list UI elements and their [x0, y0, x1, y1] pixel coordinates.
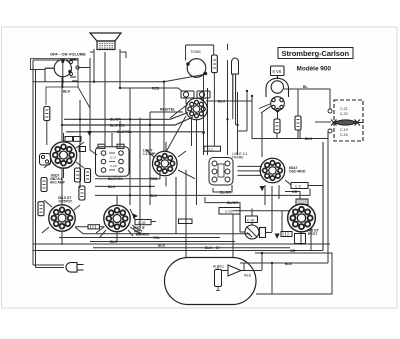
- capacitor C-27 box: [179, 219, 193, 224]
- wire vertical v130: [129, 88, 131, 205]
- oscillator coils L5 L6: [181, 91, 210, 98]
- svg-text:BLK: BLK: [218, 100, 226, 104]
- wire vertical v90: [90, 58, 97, 155]
- svg-text:YEL: YEL: [153, 236, 161, 240]
- svg-text:RED: RED: [244, 274, 252, 278]
- IF transformer T2: [96, 147, 130, 177]
- output transformer T4 leads: [94, 50, 120, 61]
- svg-text:C-22: C-22: [340, 112, 348, 116]
- svg-text:BLK/YEL: BLK/YEL: [108, 177, 124, 181]
- svg-text:RED: RED: [152, 87, 160, 91]
- capacitor C-31 box below rectifier: [295, 234, 306, 244]
- wire bottom run BLK2 long: [33, 243, 330, 245]
- capacitor C16b top box B: [117, 144, 124, 148]
- tube V8 6X5 rectifier socket: [288, 204, 316, 232]
- power plug P1: [66, 263, 84, 273]
- svg-text:1.2 AMP: 1.2 AMP: [143, 152, 156, 156]
- wire labels group: [108, 85, 313, 266]
- svg-text:AVC AMP: AVC AMP: [50, 181, 66, 185]
- svg-text:BLK ¬ B+: BLK ¬ B+: [205, 246, 221, 250]
- wire bottom BLK3 run: [93, 247, 290, 249]
- wire heater run 1 BL/OR: [64, 113, 188, 120]
- tuning gang lens: [334, 120, 357, 125]
- resistor R12: [44, 107, 50, 121]
- wire output B web: [96, 196, 156, 242]
- wire 6X5 left feed: [233, 211, 289, 232]
- transformer 1:1 box: [204, 146, 221, 151]
- capacitor C-29 box: [219, 208, 240, 215]
- resistor R10: [41, 178, 47, 192]
- wire OR label run: [285, 192, 300, 200]
- svg-text:BL/YEL: BL/YEL: [213, 265, 225, 269]
- svg-text:BLK: BLK: [110, 240, 118, 244]
- svg-text:BL/OR: BL/OR: [227, 201, 238, 205]
- wire vertical v196: [196, 119, 198, 155]
- svg-text:Modèle 900: Modèle 900: [297, 66, 332, 73]
- svg-text:C-29: C-29: [225, 210, 233, 214]
- wire vertical tone left: [203, 73, 205, 156]
- label 6SQ7: [50, 174, 66, 185]
- wire v176: [176, 155, 197, 245]
- svg-text:BLK: BLK: [305, 137, 313, 141]
- resistor R4: [274, 119, 280, 133]
- wire 6SA7 left stubs: [238, 166, 263, 175]
- wire converter left web: [166, 98, 202, 152]
- resistor R13: [38, 202, 44, 216]
- tube V5 converter socket: [186, 98, 208, 120]
- wire RED speaker run: [120, 49, 182, 91]
- wire vertical v262: [261, 113, 263, 157]
- svg-text:RECT: RECT: [308, 232, 318, 236]
- tube V3 6SK7 socket: [153, 151, 178, 176]
- resistor R9: [85, 169, 91, 183]
- wire vertical v62: [61, 77, 63, 204]
- label 6V6 GT OUTPUT: [58, 196, 72, 204]
- svg-text:BLK: BLK: [63, 90, 71, 94]
- wire vertical v237: [237, 92, 239, 155]
- svg-text:OSC-MOD: OSC-MOD: [289, 170, 306, 174]
- resistor R8: [75, 168, 81, 182]
- wire right OR run: [255, 253, 332, 294]
- wire left border outer: [33, 60, 36, 268]
- svg-text:BL/RED: BL/RED: [136, 232, 150, 236]
- tone control R2: [186, 45, 214, 77]
- wire avc run BLK: [95, 189, 310, 196]
- svg-text:C-19: C-19: [340, 128, 348, 132]
- wire bottom run BL/RED: [83, 233, 250, 235]
- svg-text:C-30: C-30: [247, 219, 254, 223]
- resistor R5: [295, 116, 301, 130]
- wire stadium right drops: [256, 253, 272, 294]
- capacitor C16c side box: [79, 147, 86, 152]
- wire 6SA7 drops: [265, 185, 279, 232]
- wire stadium triangle feed: [244, 264, 262, 271]
- wire BLK tuner feed: [252, 96, 328, 139]
- wire bottom B+ run: [33, 142, 323, 251]
- label L16 light: [143, 149, 156, 156]
- wire volume box top: [33, 60, 78, 64]
- wire vertical tone right: [207, 88, 209, 155]
- capacitor C16 top box A: [98, 144, 105, 148]
- svg-text:C-20: C-20: [340, 133, 348, 137]
- wire BLK/YEL mid: [95, 172, 160, 179]
- resistor R11: [79, 186, 85, 200]
- wire RED/YEL run: [150, 111, 183, 113]
- ammeter arrow A1: [222, 263, 244, 277]
- wire long B+ horizontal: [33, 81, 164, 83]
- battery stadium B1: [165, 258, 257, 305]
- svg-text:Stromberg-Carlson: Stromberg-Carlson: [282, 49, 350, 58]
- svg-text:BL/OR: BL/OR: [220, 190, 231, 194]
- svg-text:OFF - ON VOLUME: OFF - ON VOLUME: [50, 52, 86, 57]
- wire output A web: [42, 199, 105, 245]
- volume control R1 OFF-ON VOLUME: [31, 59, 91, 109]
- wire volume pot bottom: [31, 68, 91, 82]
- vibrator G1 circle-X: [245, 225, 266, 239]
- wire speaker left lead: [93, 49, 95, 82]
- label 6SK7 IF: [133, 226, 145, 233]
- dial lamp I-1: [232, 58, 239, 102]
- speaker SP1: [90, 33, 121, 50]
- wire vertical v120b: [119, 121, 121, 147]
- wire BL 6V6 to tuner: [284, 89, 330, 109]
- fuse box above rectifier: [296, 199, 308, 205]
- capacitor C21 dashed tuner box: [315, 100, 363, 141]
- wire bottom run BLK1: [90, 241, 235, 243]
- svg-text:RED/YEL: RED/YEL: [160, 108, 176, 112]
- wire vertical v150: [149, 112, 151, 205]
- svg-text:BLK/YEL: BLK/YEL: [110, 123, 126, 127]
- tube V4 6SA7 socket: [260, 158, 285, 183]
- wire heater run 3 BLK/YEL: [66, 131, 205, 133]
- capacitor C-30 box: [246, 216, 258, 223]
- svg-text:BL/OR: BL/OR: [110, 118, 121, 122]
- capacitor C-9 box: [291, 183, 308, 189]
- wire right BLK run: [240, 132, 328, 264]
- tube V7 output socket B: [104, 205, 130, 231]
- capacitor C15 grid box B: [74, 137, 82, 142]
- svg-text:1:1: 1:1: [208, 147, 213, 151]
- arrowheads: [87, 131, 280, 239]
- svg-text:BLK: BLK: [285, 262, 293, 266]
- svg-text:OUTPUT: OUTPUT: [59, 200, 73, 204]
- svg-text:C-17: C-17: [110, 156, 117, 160]
- svg-text:C-18: C-18: [110, 164, 117, 168]
- tube V1 6V6 envelope: [259, 66, 289, 113]
- svg-text:C-26: C-26: [138, 221, 145, 225]
- svg-text:BLK: BLK: [158, 244, 166, 248]
- svg-text:BLK: BLK: [150, 194, 158, 198]
- wire vib circle links: [240, 209, 272, 233]
- wire vertical v80: [79, 100, 81, 188]
- svg-text:C-21: C-21: [340, 107, 348, 111]
- resistor R3 tone: [212, 55, 218, 73]
- wire vertical v112: [111, 133, 113, 147]
- svg-text:TONE: TONE: [190, 49, 201, 54]
- wire vertical v48: [46, 121, 48, 146]
- wire 6V6 resistor stubs: [277, 89, 298, 139]
- svg-text:FRAME: FRAME: [232, 155, 244, 159]
- vibrator transformer T3: [209, 158, 233, 186]
- wire BL/OR C29: [205, 197, 240, 208]
- resistor R14 coupling: [88, 225, 100, 229]
- svg-text:BLK/YEL: BLK/YEL: [117, 130, 133, 134]
- wire plug feed pair: [33, 265, 64, 268]
- wire BL/OR T3: [213, 185, 232, 192]
- wire vertical v140: [132, 118, 140, 231]
- svg-text:BLK: BLK: [108, 185, 116, 189]
- svg-text:RED: RED: [150, 177, 158, 181]
- tube V2 6SQ7 socket: [50, 142, 76, 168]
- wire 6SK7 web: [146, 142, 195, 186]
- svg-text:OR: OR: [292, 190, 298, 194]
- wire speaker top loop: [90, 52, 126, 58]
- wire 6X5 drops: [301, 228, 311, 251]
- capacitor C14 grid box A: [65, 137, 73, 142]
- wire stadium top feeds: [186, 215, 233, 258]
- capacitor C-26 box: [135, 220, 151, 226]
- wire vertical v164: [163, 82, 165, 152]
- wire BLK converter right: [206, 100, 252, 102]
- wire v247: [237, 91, 247, 131]
- tube V6 output socket A: [49, 205, 75, 231]
- wire BLK mid: [95, 185, 155, 187]
- svg-text:C-9: C-9: [295, 185, 301, 189]
- resistor R7 in stadium: [215, 266, 222, 291]
- wire vertical v227: [227, 44, 229, 155]
- wire heater run 2 BLK/YEL: [62, 117, 193, 125]
- svg-text:OR: OR: [290, 249, 296, 253]
- wire 6SQ7 web: [44, 133, 84, 178]
- wire tone wiper diagonal: [164, 75, 204, 82]
- wire C9 link: [285, 180, 323, 186]
- connector J1: [40, 154, 51, 166]
- svg-text:6 V6: 6 V6: [273, 69, 282, 74]
- title box Stromberg-Carlson: [278, 48, 353, 59]
- resistor R6 hatched: [281, 232, 292, 237]
- wire lamp drop pair: [233, 74, 236, 125]
- wire bottom run YEL: [59, 237, 220, 239]
- wire vertical v105: [104, 52, 106, 147]
- wire vertical v214: [213, 73, 215, 146]
